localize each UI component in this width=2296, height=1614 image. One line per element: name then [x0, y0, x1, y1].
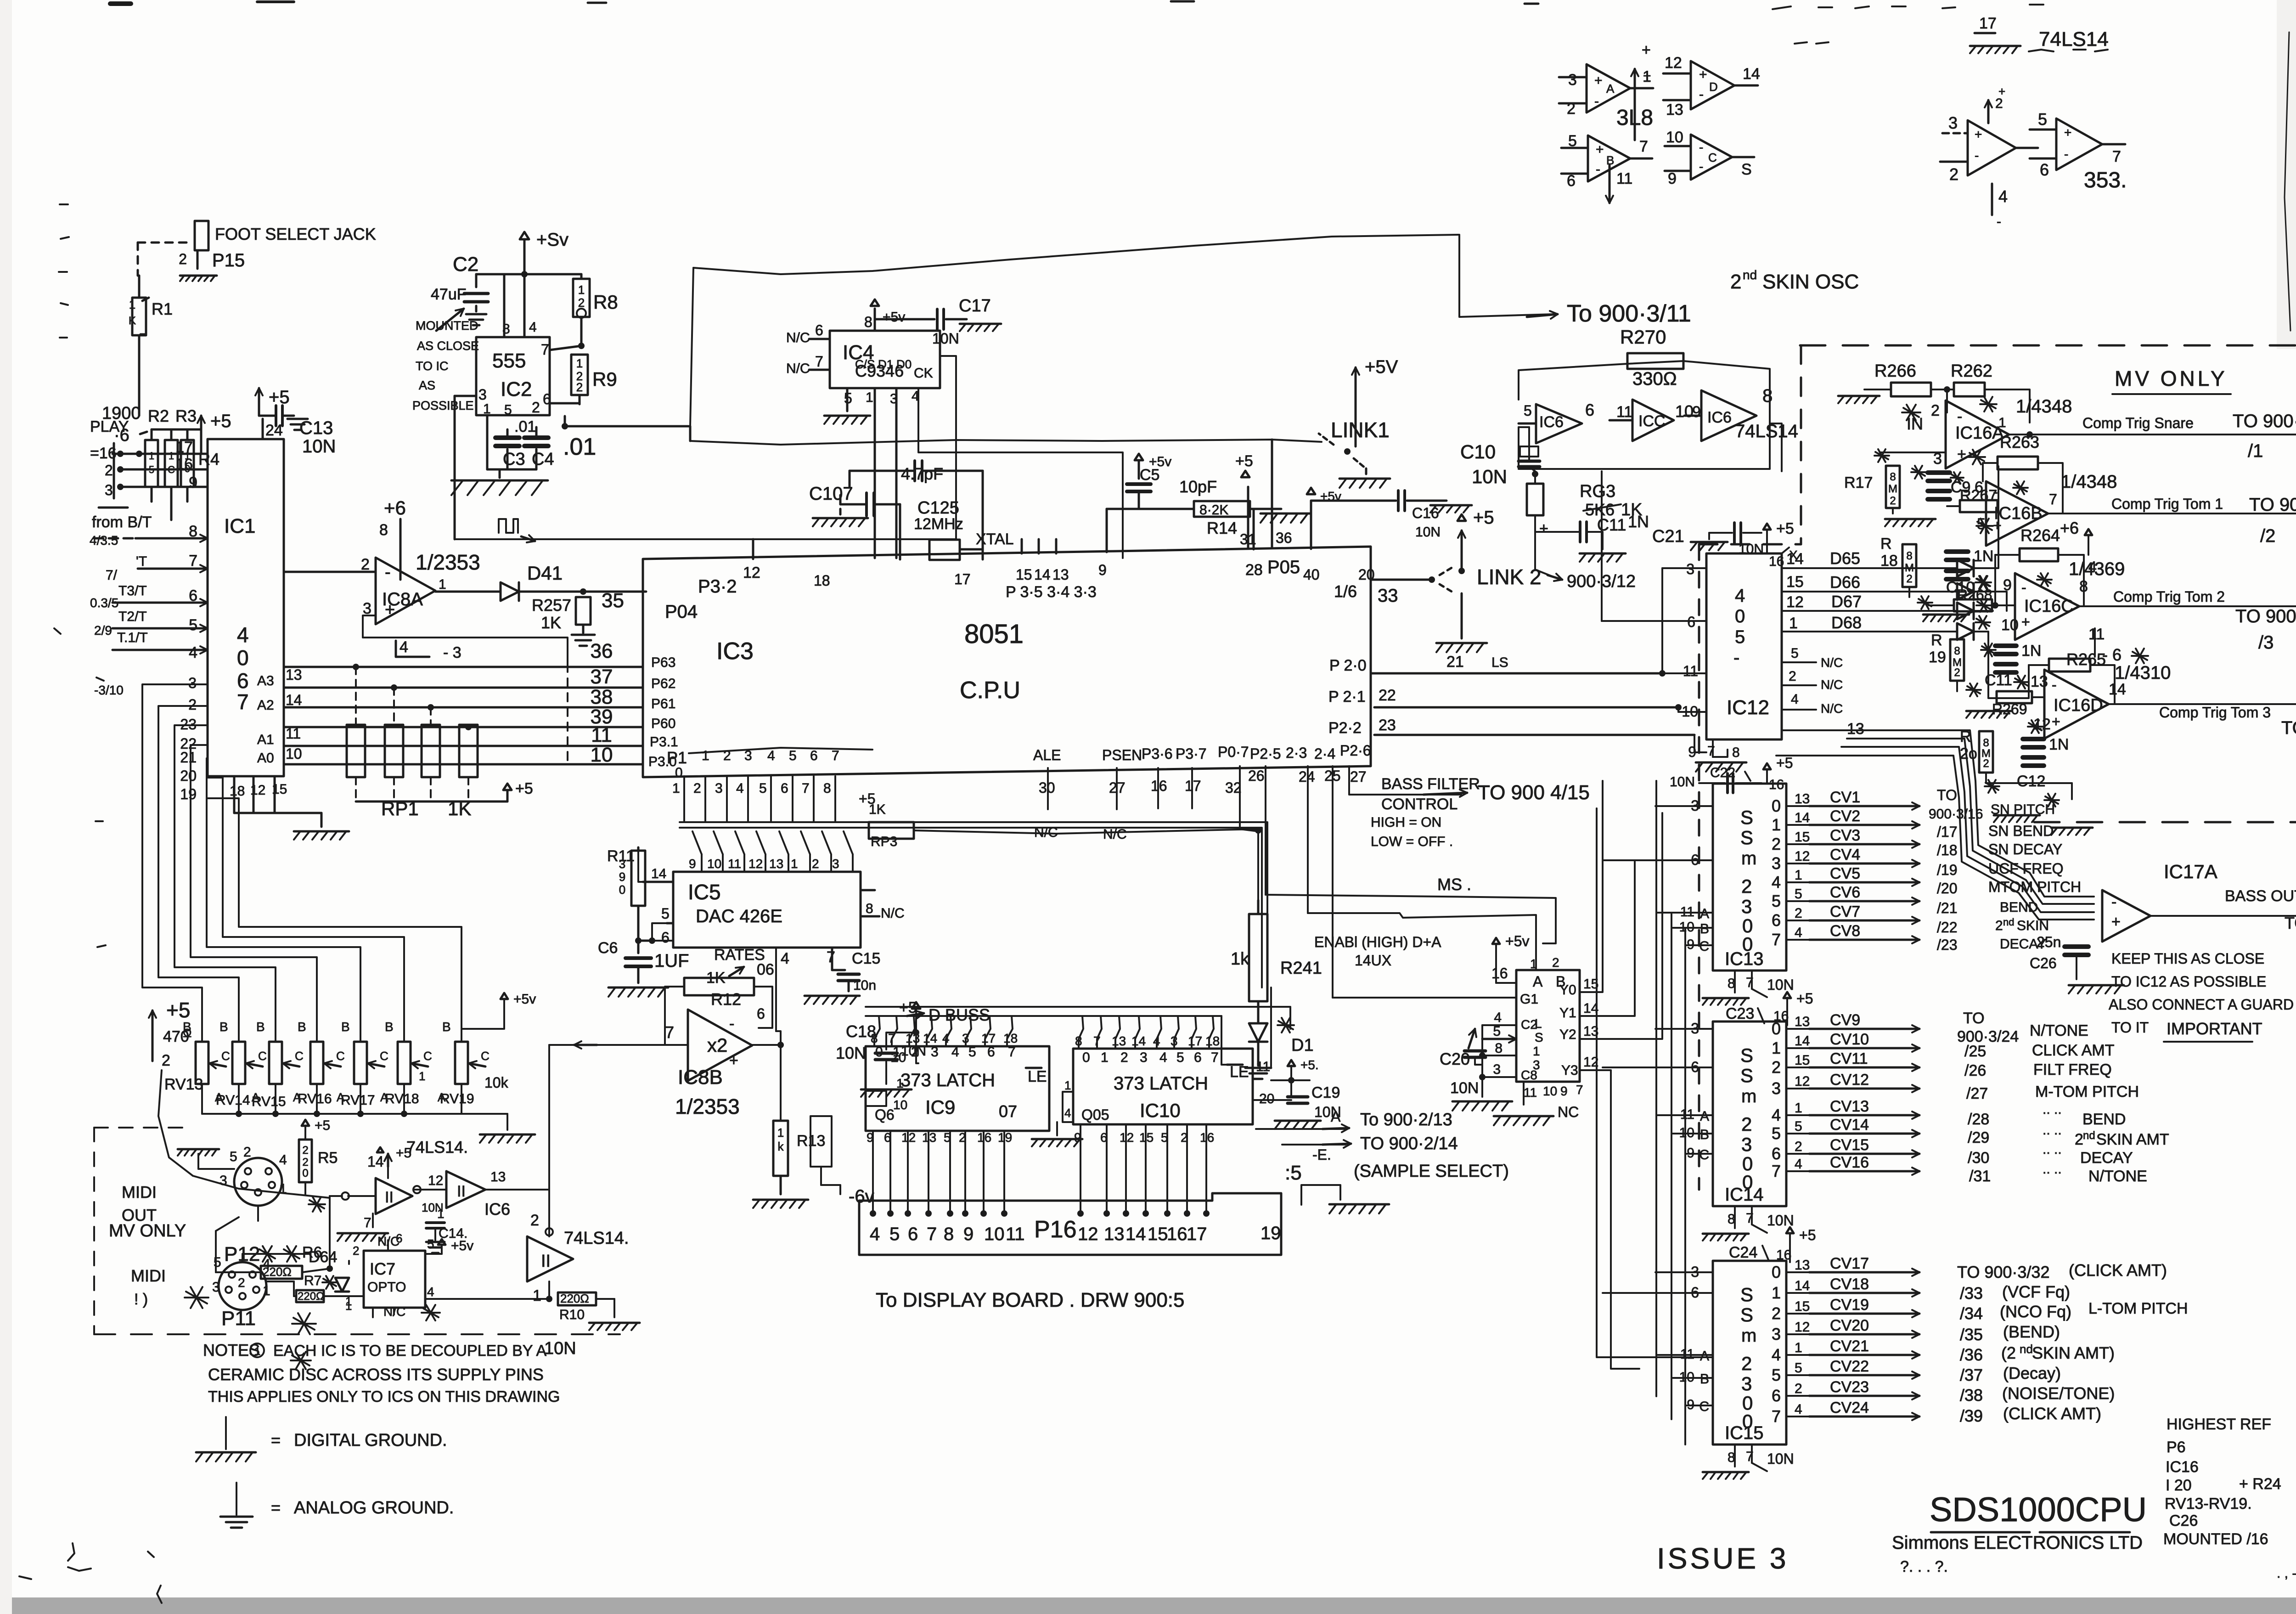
svg-text:D1: D1	[1291, 1036, 1314, 1055]
svg-text:CV2: CV2	[1830, 807, 1860, 825]
svg-text:IC6: IC6	[484, 1200, 510, 1219]
svg-text:8: 8	[189, 523, 197, 540]
resistor R267	[1947, 487, 1998, 533]
scanner bar bottom edge	[0, 1597, 2296, 1614]
svg-text:7: 7	[827, 948, 835, 966]
svg-text:5: 5	[189, 616, 197, 634]
svg-text:CV13: CV13	[1830, 1098, 1869, 1115]
svg-text:10: 10	[1543, 1084, 1557, 1098]
capacitor C10 10N	[1460, 427, 1540, 487]
IC IC14 SSM2300 body	[1713, 1021, 1786, 1206]
resistor R13	[753, 1121, 825, 1208]
svg-text:+5: +5	[1796, 990, 1813, 1007]
label IN near IC16A	[1907, 414, 1923, 433]
wire dashed jack to R1	[138, 243, 193, 276]
capacitor C26	[2030, 934, 2124, 993]
svg-text:2: 2	[188, 696, 197, 713]
svg-text:+5: +5	[1235, 452, 1253, 470]
svg-text:=: =	[271, 1431, 281, 1450]
svg-text:nd: nd	[2003, 916, 2014, 928]
svg-text:C: C	[423, 1049, 432, 1063]
svg-text:P2·5: P2·5	[1250, 745, 1281, 762]
svg-text:20: 20	[180, 767, 197, 784]
svg-text:4: 4	[189, 644, 197, 661]
bus wires IC1 to potentiometers	[142, 684, 461, 1029]
IC IC1 4067 body	[208, 439, 284, 776]
svg-text:3: 3	[219, 1173, 227, 1188]
svg-text:37: 37	[591, 666, 613, 688]
IC11 bottom pins NC ground	[1494, 1082, 1583, 1125]
IC1 input T2/T pin 5	[94, 609, 208, 638]
svg-text:SKIN: SKIN	[2017, 918, 2049, 933]
svg-text:/17: /17	[1937, 824, 1957, 840]
svg-text:+5: +5	[1776, 755, 1793, 771]
svg-text:RP1: RP1	[381, 798, 419, 819]
inverter IC6a midi	[330, 1138, 468, 1269]
svg-text:4: 4	[263, 1257, 270, 1272]
svg-text:220Ω: 220Ω	[560, 1292, 589, 1305]
svg-text:RV17: RV17	[341, 1093, 375, 1108]
resistor R11 390	[607, 847, 652, 944]
svg-text:CV15: CV15	[1830, 1136, 1869, 1154]
svg-text:0: 0	[1082, 1050, 1090, 1065]
svg-text:1N: 1N	[2049, 736, 2069, 753]
svg-text:3: 3	[1741, 1373, 1752, 1394]
svg-text:15: 15	[1795, 1053, 1810, 1068]
svg-text:3: 3	[212, 1280, 220, 1295]
svg-text:6: 6	[987, 1044, 995, 1060]
svg-text:12: 12	[743, 564, 760, 581]
svg-text:10: 10	[2001, 616, 2019, 634]
svg-text:C2: C2	[453, 253, 478, 276]
svg-text:RV14: RV14	[216, 1093, 250, 1108]
svg-text:C: C	[221, 1049, 230, 1063]
svg-text:.. ..: .. ..	[2043, 1102, 2062, 1117]
resistor R263 feedback	[1983, 433, 2063, 512]
svg-text:C15: C15	[852, 950, 880, 967]
svg-text:CV7: CV7	[1830, 903, 1860, 920]
svg-text:1: 1	[419, 1069, 425, 1083]
svg-text:4: 4	[1795, 1157, 1802, 1172]
svg-text:OPTO: OPTO	[367, 1280, 406, 1295]
svg-text:17: 17	[954, 571, 971, 587]
svg-text:30: 30	[1039, 779, 1055, 796]
svg-text:CV3: CV3	[1830, 827, 1860, 844]
svg-text:PLAY: PLAY	[90, 418, 129, 435]
svg-text:R3: R3	[175, 406, 197, 425]
connector P16 body	[859, 1193, 1281, 1255]
svg-text:/23: /23	[1937, 937, 1957, 953]
svg-text:23: 23	[1379, 717, 1396, 734]
svg-text:6: 6	[661, 929, 670, 946]
IC5 top pins 9-3	[689, 857, 839, 871]
svg-text:36: 36	[1276, 530, 1292, 546]
svg-text:+: +	[2052, 713, 2060, 730]
left connector bracket PLAY	[90, 418, 208, 508]
svg-text:CERAMIC DISC ACROSS ITS SU: CERAMIC DISC ACROSS ITS SUPPLY PINS	[208, 1365, 544, 1384]
svg-text:A2: A2	[257, 698, 274, 713]
svg-text:2: 2	[162, 1052, 170, 1069]
svg-text:4: 4	[1791, 692, 1799, 707]
svg-text:2: 2	[1772, 835, 1781, 853]
wire IC8A feedback	[363, 615, 568, 760]
svg-text:10N: 10N	[1450, 1079, 1479, 1097]
svg-text:1: 1	[777, 1126, 784, 1140]
svg-text:N/C: N/C	[881, 906, 905, 921]
svg-text:7: 7	[189, 552, 197, 570]
svg-text:C21: C21	[1652, 527, 1684, 546]
svg-text:C: C	[1699, 939, 1709, 954]
IC IC10 373 latch body	[1073, 1049, 1253, 1124]
IC15 left select pins	[1603, 1264, 1713, 1414]
crystal circuit C107 C125 XTAL	[809, 461, 1014, 589]
IC12 bottom pins 7 8 ground C22	[1670, 739, 1793, 793]
svg-text:=16: =16	[90, 445, 117, 462]
node dot R1 junction	[113, 451, 142, 457]
capacitor C13 at pin 24	[255, 387, 336, 457]
svg-text:13: 13	[1847, 720, 1864, 738]
svg-text:?. . . ?.: ?. . . ?.	[1900, 1558, 1948, 1575]
svg-text:/18: /18	[1937, 842, 1957, 858]
svg-text:S: S	[1740, 827, 1753, 848]
svg-text:-: -	[1957, 408, 1962, 425]
svg-text:14: 14	[1125, 1224, 1146, 1244]
dashed border MV ONLY bottom right	[2034, 821, 2296, 824]
arrow output B to 900-2/14	[1282, 1134, 1458, 1163]
title SDS1000 CPU	[1930, 1490, 2147, 1532]
svg-text:-6v: -6v	[849, 1186, 874, 1207]
svg-text:4: 4	[951, 1044, 959, 1060]
IC14 output destinations	[1957, 1010, 2169, 1185]
svg-text:+5v: +5v	[883, 310, 905, 325]
svg-text:RV18: RV18	[385, 1091, 419, 1106]
svg-text:373 LATCH: 373 LATCH	[1114, 1073, 1208, 1094]
svg-text:7: 7	[1008, 1044, 1016, 1060]
svg-text:C/S: C/S	[855, 357, 875, 371]
svg-text:Y2: Y2	[1559, 1027, 1576, 1042]
op-amp IC8B x2	[665, 1005, 765, 1118]
wire IC17A output bass out	[2150, 887, 2296, 960]
svg-text:Q05: Q05	[1081, 1106, 1109, 1123]
svg-text:14UX: 14UX	[1355, 952, 1391, 969]
capacitor C4	[514, 418, 596, 469]
svg-text:B: B	[341, 1020, 350, 1034]
svg-text:+Sv: +Sv	[536, 230, 568, 250]
svg-text:2: 2	[578, 296, 585, 310]
svg-text:RV16: RV16	[298, 1091, 332, 1106]
svg-text:7: 7	[2112, 148, 2121, 165]
svg-text:1: 1	[1795, 1340, 1802, 1355]
svg-text:18: 18	[1003, 1031, 1018, 1045]
svg-text:8: 8	[944, 1224, 954, 1244]
svg-text:17: 17	[1979, 15, 1997, 32]
svg-text:DIGITAL GROUND.: DIGITAL GROUND.	[294, 1431, 447, 1450]
svg-text:/30: /30	[1968, 1149, 1989, 1167]
svg-text:7: 7	[1639, 138, 1648, 155]
svg-text:1: 1	[129, 298, 135, 311]
CPU P1 pins 1-8	[672, 748, 839, 822]
wire IC6b to 74LS14 big	[527, 1190, 549, 1235]
svg-text:22: 22	[1379, 687, 1396, 704]
svg-text:C23: C23	[1726, 1005, 1754, 1022]
svg-text:ISSUE 3: ISSUE 3	[1657, 1542, 1789, 1575]
svg-text:II: II	[385, 1189, 394, 1206]
svg-text:2·4: 2·4	[1314, 745, 1335, 762]
svg-text:N/C: N/C	[786, 330, 810, 345]
svg-text:5: 5	[968, 1044, 976, 1060]
power +5v arrow above IC2	[520, 230, 568, 337]
svg-text:IC8B: IC8B	[678, 1066, 723, 1089]
svg-text:6: 6	[781, 781, 788, 796]
svg-text:1: 1	[791, 857, 798, 871]
IC4 N/C pins 6 7	[786, 322, 830, 376]
svg-text:RV15: RV15	[252, 1094, 286, 1109]
pin labels 17 16 9 IC1	[175, 439, 197, 491]
svg-text:S: S	[1740, 1304, 1753, 1326]
wire bracket p16 right to ground	[1301, 1185, 1389, 1213]
svg-text:PSEN: PSEN	[1102, 747, 1142, 763]
diode D1	[1245, 1018, 1314, 1079]
svg-text:MV ONLY: MV ONLY	[2115, 367, 2228, 390]
svg-text:4: 4	[1795, 1402, 1802, 1417]
svg-text:3: 3	[744, 748, 752, 763]
CPU pin 31 +5	[1235, 452, 1256, 547]
svg-text:C: C	[481, 1049, 490, 1063]
svg-text:(BEND): (BEND)	[2003, 1322, 2060, 1341]
svg-text:14: 14	[367, 1153, 384, 1170]
pin 35 into IC3	[602, 589, 624, 612]
svg-text:12: 12	[428, 1173, 443, 1188]
svg-text:R262: R262	[1951, 361, 1992, 381]
svg-text:P0·7: P0·7	[1218, 744, 1249, 760]
resistor R262	[1931, 361, 2030, 423]
IC10 bottom pins to P16	[1074, 1124, 1214, 1217]
svg-text:2: 2	[1789, 669, 1796, 684]
svg-text:IC15: IC15	[1725, 1423, 1764, 1443]
connector P11 DIN midi in	[185, 1254, 316, 1334]
svg-text:7: 7	[237, 690, 249, 714]
svg-text:-E.: -E.	[1312, 1146, 1331, 1163]
dashed border MV ONLY top	[1800, 344, 2296, 347]
svg-text:17: 17	[981, 1031, 996, 1045]
svg-text:N/C: N/C	[1821, 655, 1843, 670]
svg-text:13: 13	[1104, 1224, 1125, 1244]
svg-text:-: -	[729, 1015, 734, 1033]
svg-text:11: 11	[1683, 663, 1698, 679]
svg-text:10N: 10N	[836, 1044, 866, 1062]
resistor R8	[573, 279, 618, 346]
svg-text:HIGHEST REF: HIGHEST REF	[2167, 1416, 2271, 1433]
svg-text:5: 5	[504, 402, 512, 418]
svg-text:IC8A: IC8A	[382, 589, 423, 609]
svg-text:07: 07	[999, 1102, 1017, 1121]
IC IC7 OPTO body	[291, 1231, 547, 1369]
wire clock line from IC2 to CPU	[455, 538, 956, 540]
svg-text:CV24: CV24	[1830, 1399, 1869, 1416]
svg-text:1: 1	[149, 450, 154, 462]
IC IC3 8051 CPU body	[643, 547, 1371, 777]
svg-text:0: 0	[1772, 1263, 1781, 1281]
svg-text:BEND: BEND	[2000, 900, 2038, 915]
svg-text:P05: P05	[1267, 557, 1300, 577]
IC5 pin 14 left	[638, 847, 673, 882]
svg-text:2: 2	[302, 1156, 308, 1168]
svg-text:1: 1	[533, 1287, 541, 1304]
svg-text:IC16: IC16	[2166, 1458, 2199, 1476]
svg-text:D0: D0	[896, 357, 912, 371]
svg-text:5: 5	[1977, 515, 1986, 533]
svg-text:/26: /26	[1964, 1062, 1986, 1079]
svg-text:7: 7	[1772, 1162, 1781, 1180]
IC IC12 4051 body	[1706, 553, 1782, 739]
svg-text:+6: +6	[2060, 519, 2079, 537]
svg-text:11: 11	[728, 857, 741, 871]
wire P63 line pin 36	[284, 640, 675, 670]
svg-text:4: 4	[870, 1224, 880, 1244]
label sample select	[1354, 1162, 1509, 1181]
svg-text:1: 1	[1789, 615, 1798, 632]
CPU top pin 12	[743, 539, 760, 581]
svg-text:CV20: CV20	[1830, 1317, 1869, 1334]
svg-text:1/2353: 1/2353	[416, 550, 480, 574]
svg-text:CK: CK	[914, 366, 933, 381]
svg-text:TO 900 4/15: TO 900 4/15	[1478, 781, 1590, 804]
resistor R264 feedback	[1995, 519, 2097, 606]
op-amp IC D (pins 12,13,14)	[1663, 54, 1760, 119]
svg-text:2: 2	[1949, 165, 1958, 184]
svg-text:1: 1	[1101, 1050, 1109, 1065]
svg-text:R12: R12	[711, 990, 741, 1009]
svg-text:=: =	[271, 1498, 281, 1517]
CPU right P2.1 pin 22	[1328, 687, 1678, 707]
svg-text:2: 2	[1795, 1139, 1802, 1154]
svg-text:1: 1	[576, 356, 583, 370]
svg-text:C8: C8	[1521, 1068, 1537, 1082]
svg-text:9: 9	[1098, 562, 1107, 578]
svg-text:K: K	[129, 315, 136, 327]
label 2nd SKIN OSC	[1730, 268, 1859, 293]
scan specks top edge	[110, 1, 2043, 9]
svg-text:1: 1	[1998, 415, 2006, 430]
svg-text:15: 15	[1786, 573, 1804, 591]
svg-text:4/3.5: 4/3.5	[90, 533, 118, 547]
wire pin7 to R8 R9 junction	[550, 346, 581, 350]
resistor R1	[129, 276, 173, 416]
IC15 bottom pins ground	[1703, 1445, 1794, 1479]
svg-text:R17: R17	[1844, 474, 1873, 491]
scan marks right edge	[1795, 6, 2296, 51]
svg-text:+: +	[1643, 68, 1651, 84]
svg-text:/27: /27	[1966, 1085, 1988, 1102]
svg-text:0: 0	[1772, 796, 1781, 815]
svg-text:IC14: IC14	[1725, 1185, 1764, 1205]
svg-text:18: 18	[1880, 552, 1898, 570]
svg-text:3: 3	[962, 1031, 969, 1045]
svg-text:+5: +5	[210, 411, 231, 431]
svg-text:11: 11	[1524, 1085, 1537, 1100]
label BASS FILTER CONTROL TO 900-4/15	[1381, 775, 1590, 813]
svg-text:4: 4	[1772, 1106, 1781, 1124]
IC10 inside top labels 0-7	[1082, 1050, 1219, 1065]
svg-text:18: 18	[230, 784, 245, 799]
svg-text:B: B	[219, 1020, 228, 1034]
svg-text:MTOM PITCH: MTOM PITCH	[1988, 879, 2081, 895]
svg-text:(Decay): (Decay)	[2003, 1364, 2061, 1383]
svg-text:R270: R270	[1620, 326, 1666, 348]
svg-text:.01: .01	[563, 434, 596, 460]
svg-text:33: 33	[1378, 586, 1398, 606]
label 74LS14 osc	[1735, 421, 1798, 441]
svg-text:IC16A: IC16A	[1955, 423, 2004, 443]
resistor R269	[1992, 691, 2043, 733]
svg-text:RP3: RP3	[871, 834, 897, 849]
svg-text:P3·2: P3·2	[698, 576, 737, 597]
IC IC13 SSM2300 body	[1713, 784, 1786, 971]
svg-text:6: 6	[189, 587, 197, 604]
wire P62 line pin 37	[284, 666, 675, 691]
svg-text:-: -	[1596, 162, 1600, 177]
svg-text:19: 19	[1261, 1223, 1281, 1243]
svg-text:3: 3	[1493, 1062, 1501, 1077]
scan marks bottom left	[19, 1543, 162, 1603]
svg-text:P6: P6	[2167, 1439, 2186, 1456]
IC4 bottom pins	[824, 357, 1123, 558]
svg-text:A3: A3	[257, 673, 274, 688]
wire pin2 output right	[562, 268, 1322, 445]
svg-text:17: 17	[1187, 1224, 1207, 1244]
svg-text:17: 17	[1188, 1034, 1202, 1048]
svg-text:74LS14: 74LS14	[1735, 421, 1798, 441]
svg-text:4: 4	[1795, 925, 1802, 940]
label A15 wire	[1266, 875, 1556, 943]
svg-text:CV22: CV22	[1830, 1358, 1869, 1375]
svg-text::5: :5	[1285, 1162, 1302, 1184]
svg-text:10: 10	[1675, 402, 1694, 421]
op-amp IC17A	[2102, 861, 2217, 942]
svg-text:C125: C125	[917, 498, 959, 518]
IC5 bottom pin 7 C15	[805, 948, 880, 1004]
svg-text:7: 7	[1211, 1050, 1219, 1065]
svg-text:R8: R8	[593, 291, 618, 313]
svg-text:To DISPLAY BOARD . DRW 900:5: To DISPLAY BOARD . DRW 900:5	[876, 1289, 1184, 1311]
svg-text:.. ..: .. ..	[2043, 1162, 2062, 1177]
svg-text:+: +	[1596, 142, 1604, 157]
IC13 outputs CV rows	[1772, 789, 1919, 949]
svg-text:A0: A0	[257, 751, 274, 766]
svg-text:-: -	[2111, 893, 2116, 911]
svg-text:13: 13	[1795, 791, 1810, 807]
label Simmons Electronics Ltd	[1892, 1533, 2143, 1575]
svg-text:R: R	[1931, 632, 1942, 649]
svg-text:12: 12	[748, 857, 763, 871]
svg-text:2: 2	[2075, 1131, 2083, 1148]
svg-text:5: 5	[1772, 1124, 1781, 1143]
resistor RP3 1K	[859, 790, 1258, 849]
svg-text:+: +	[1699, 67, 1707, 82]
svg-text:4: 4	[427, 1285, 434, 1299]
bus P1 to D-buss wrap	[680, 822, 1267, 988]
CPU pin PSEN 27 NC	[1102, 747, 1142, 842]
wire IC8B feedback R12 1K	[665, 969, 772, 1045]
IC13 output destinations	[1929, 787, 2081, 953]
svg-text:CV6: CV6	[1830, 884, 1860, 901]
op-amp IC B (pins 5,6,7,11)	[1561, 132, 1652, 190]
svg-text:SKIN OSC: SKIN OSC	[1762, 271, 1859, 293]
note keep this as close to IC12	[2109, 950, 2296, 1042]
svg-text:1K: 1K	[869, 802, 886, 817]
svg-text:P04: P04	[665, 602, 698, 622]
svg-text:-: -	[1993, 484, 1998, 500]
